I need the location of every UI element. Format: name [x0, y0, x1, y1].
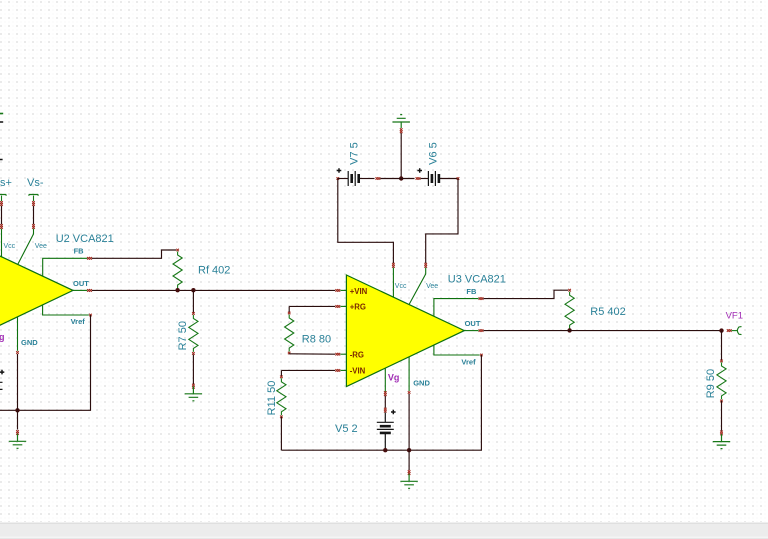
svg-text:V6 5: V6 5 — [428, 142, 440, 165]
svg-text:R5 402: R5 402 — [590, 306, 625, 318]
svg-text:V7 5: V7 5 — [349, 142, 361, 165]
svg-text:R8 80: R8 80 — [302, 334, 331, 346]
svg-text:+VIN: +VIN — [350, 287, 368, 296]
svg-text:V5 2: V5 2 — [335, 423, 358, 435]
svg-text:FB: FB — [466, 287, 477, 296]
svg-text:U2 VCA821: U2 VCA821 — [56, 233, 114, 245]
svg-text:U3 VCA821: U3 VCA821 — [448, 274, 506, 286]
svg-text:Vg: Vg — [0, 332, 5, 342]
svg-text:Vs-: Vs- — [27, 177, 44, 189]
svg-text:R9 50: R9 50 — [705, 369, 717, 398]
svg-text:-VIN: -VIN — [350, 367, 366, 376]
svg-text:GND: GND — [413, 379, 430, 388]
svg-text:Vg: Vg — [388, 373, 400, 383]
svg-text:Vee: Vee — [426, 283, 438, 290]
svg-text:Vee: Vee — [35, 243, 47, 250]
svg-text:Vcc: Vcc — [395, 283, 407, 290]
svg-text:OUT: OUT — [465, 319, 481, 328]
svg-text:VF1: VF1 — [726, 310, 743, 321]
svg-text:Vs+: Vs+ — [0, 177, 12, 189]
svg-text:OUT: OUT — [73, 279, 89, 288]
svg-text:R7 50: R7 50 — [177, 321, 189, 350]
svg-text:Vcc: Vcc — [4, 243, 16, 250]
svg-text:GND: GND — [21, 338, 38, 347]
svg-text:R11 50: R11 50 — [266, 381, 278, 416]
svg-text:Vref: Vref — [461, 358, 476, 367]
svg-text:Vref: Vref — [71, 317, 86, 326]
svg-text:+RG: +RG — [350, 303, 366, 312]
svg-text:FB: FB — [74, 247, 85, 256]
svg-text:-RG: -RG — [350, 350, 364, 359]
svg-text:Rf 402: Rf 402 — [198, 265, 230, 277]
